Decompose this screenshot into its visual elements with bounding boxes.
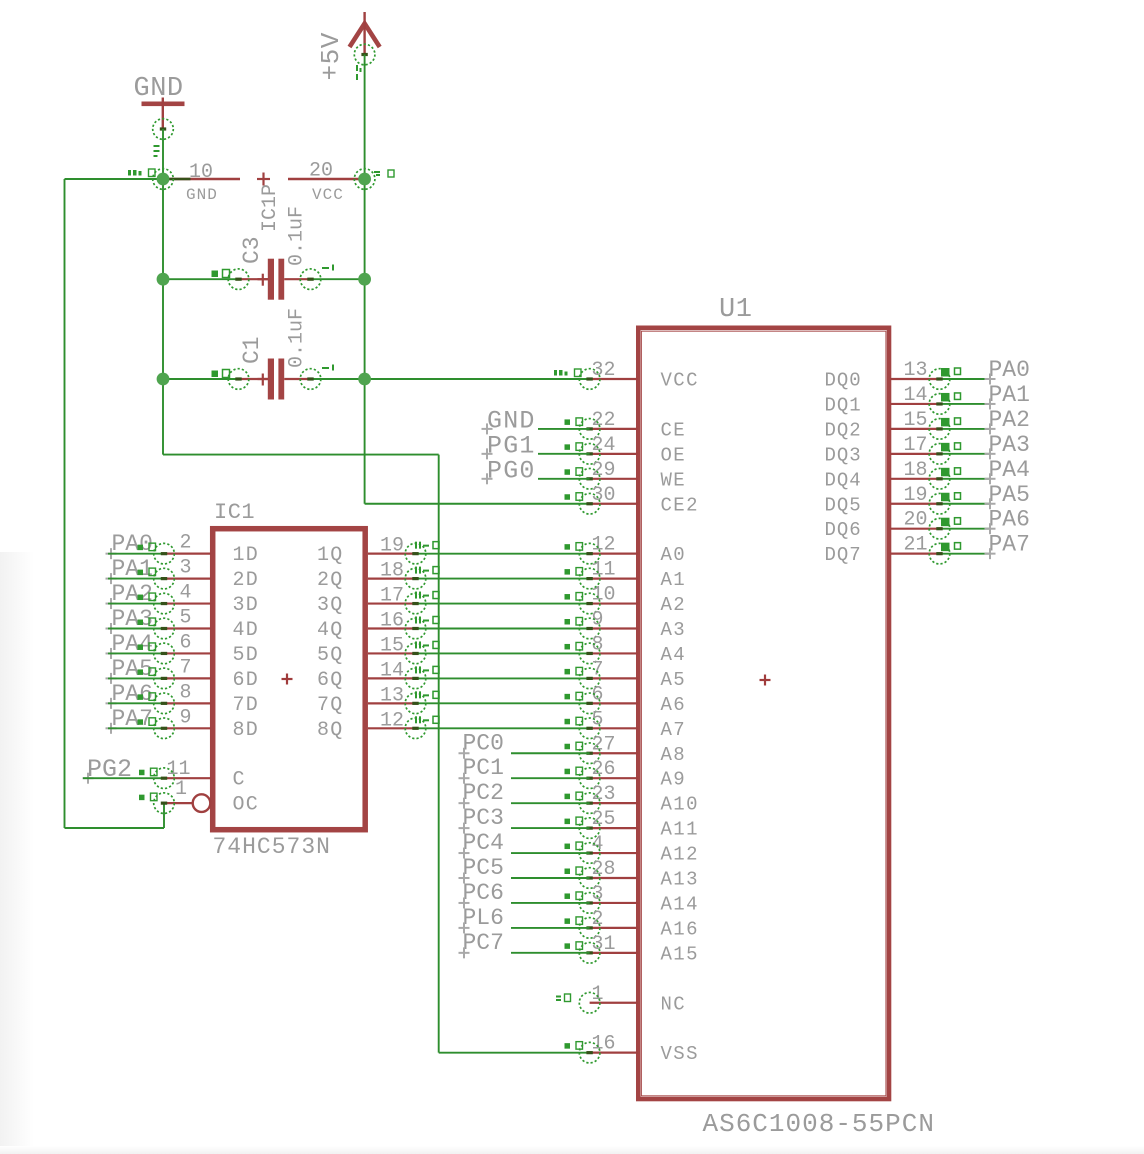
tiny pin marker U1 CE (565, 418, 583, 426)
svg-text:19: 19 (903, 484, 927, 507)
tiny pin marker U1 DQ1 (941, 393, 961, 402)
net PC2 label (463, 780, 504, 806)
svg-text:28: 28 (592, 858, 616, 881)
wire U1 DQ0 to PA0 (940, 378, 991, 380)
svg-text:2D: 2D (233, 569, 259, 592)
tiny pin marker U1 DQ3 (941, 443, 961, 452)
pin 6D line of IC1 (164, 677, 211, 679)
junction +5V-IC1P (358, 173, 371, 186)
node IC1 5D dark (161, 652, 167, 655)
svg-text:9: 9 (592, 609, 604, 632)
net PL6 label (463, 905, 504, 931)
pin A8 line of U1 (590, 752, 638, 754)
wire C3 right (311, 278, 365, 280)
tiny pin marker IC1 3Q (415, 592, 439, 599)
tiny pin marker U1 A2 (565, 593, 583, 601)
svg-text:11: 11 (592, 559, 616, 582)
IC U1 box (638, 328, 889, 1099)
pin DQ6 line of U1 (890, 528, 940, 530)
net PA0 right origin cross (985, 374, 996, 385)
net PA3 label right (989, 432, 1030, 458)
pin number 12 IC1 (380, 709, 404, 732)
pin circle IC1 2D (154, 568, 175, 589)
pin circle IC1 OC (154, 793, 175, 814)
pin circle IC1 5D (154, 643, 175, 664)
net PA5 label right (989, 482, 1030, 508)
pin name 8D IC1 (233, 719, 259, 742)
svg-text:C1: C1 (239, 336, 265, 364)
IC U1 origin cross (760, 675, 771, 686)
tiny pin marker U1 A10 (565, 792, 583, 800)
pin 3Q line of IC1 (368, 602, 416, 604)
pin circle U1 CE (579, 419, 600, 440)
node IC1 OC dark (161, 802, 167, 805)
svg-text:1: 1 (175, 778, 187, 801)
supply +5V arrow (350, 24, 380, 48)
wire U1 DQ3 to PA3 (940, 453, 991, 455)
wire IC1 1Q to U1 A0 (416, 553, 590, 555)
pin circle IC1 4D (154, 618, 175, 639)
svg-text:26: 26 (592, 758, 616, 781)
tiny pin marker IC1 C (139, 768, 157, 776)
tiny pin marker U1 DQ6 (941, 518, 961, 527)
pin name A1 U1 (661, 569, 687, 591)
tiny pin marker U1 A11 (565, 817, 583, 825)
svg-text:21: 21 (903, 534, 927, 557)
pin circle U1 NC (579, 992, 600, 1013)
net PA4 label origin cross (106, 648, 117, 659)
net PA5 label origin cross (106, 673, 117, 684)
node U1 A0 dark (586, 552, 592, 555)
tiny pin marker IC1P pin10 (128, 169, 155, 177)
wire PC1 to U1 (511, 777, 590, 779)
svg-text:18: 18 (903, 459, 927, 482)
pin circle U1 A10 (579, 793, 600, 814)
svg-text:4: 4 (592, 833, 604, 856)
node IC1 4D dark (161, 627, 167, 630)
svg-text:A11: A11 (661, 819, 699, 841)
pin circle IC1 5Q (405, 643, 426, 664)
svg-text:8: 8 (180, 681, 192, 704)
pin number 28 U1 (592, 858, 616, 881)
power part IC1P refdes (259, 184, 282, 232)
pin number 23 U1 (592, 783, 616, 806)
node U1 DQ6 dark (936, 527, 942, 530)
svg-text:29: 29 (592, 459, 616, 482)
pin name DQ3 U1 (825, 444, 862, 466)
pin circle IC1 8D (154, 718, 175, 739)
svg-text:8Q: 8Q (317, 719, 343, 742)
pin A7 line of U1 (590, 727, 638, 729)
pin number 13 IC1 (380, 684, 404, 707)
net PC4 label origin cross (459, 848, 470, 859)
svg-text:9: 9 (180, 706, 192, 729)
pin circle U1 DQ6 (929, 518, 950, 539)
net PA1 label right (989, 382, 1030, 408)
bottom edge shading (0, 1146, 1144, 1154)
pin name 2Q IC1 (317, 569, 343, 592)
capacitor C1 plate 2 (278, 359, 284, 400)
wire GND to U1 (538, 428, 590, 430)
tiny pin marker U1 WE (565, 468, 583, 476)
pin name 5Q IC1 (317, 644, 343, 667)
tiny pin marker U1 A7 (565, 717, 583, 725)
pin number 19 IC1 (380, 535, 404, 558)
svg-text:10: 10 (189, 161, 213, 184)
pin number 17 IC1 (380, 585, 404, 608)
junction C3 right (358, 273, 371, 286)
svg-text:A9: A9 (661, 769, 687, 791)
node U1 A1 dark (586, 577, 592, 580)
pin 6Q line of IC1 (368, 677, 416, 679)
wire PG1 to U1 (538, 453, 590, 455)
node IC1 7D dark (161, 702, 167, 705)
tiny pin marker IC1 7Q (415, 691, 439, 698)
svg-text:7: 7 (592, 658, 604, 681)
wire IC1 5Q to U1 A4 (416, 652, 590, 654)
IC U1 value AS6C1008-55PCN (703, 1109, 935, 1139)
pin A13 line of U1 (590, 877, 638, 879)
supply GND label (134, 74, 184, 104)
wire PC5 to U1 (511, 877, 590, 879)
svg-text:16: 16 (592, 1033, 616, 1056)
pin name A0 U1 (661, 544, 687, 566)
pin 7D line of IC1 (164, 702, 211, 704)
net PA6 right origin cross (985, 523, 996, 534)
net PC6 label origin cross (459, 897, 470, 908)
pin CE line of U1 (590, 428, 638, 430)
pin circle U1 A0 (579, 543, 600, 564)
pin circle U1 VSS (579, 1042, 600, 1063)
pin name DQ5 U1 (825, 494, 862, 516)
node U1 CE2 dark (586, 502, 592, 505)
tiny pin marker U1 DQ2 (941, 418, 961, 427)
pin A16 line of U1 (590, 927, 638, 929)
IC IC1 value 74HC573N (213, 834, 331, 860)
pin number 24 U1 (592, 434, 616, 457)
pin name NC U1 (661, 993, 687, 1015)
wire VCC horizontal to U1 (365, 378, 590, 380)
pin number 13 U1 (903, 359, 927, 382)
pin number 19 U1 (903, 484, 927, 507)
wire PC6 to U1 (511, 902, 590, 904)
svg-text:8: 8 (592, 633, 604, 656)
pin number 5 U1 (592, 708, 604, 731)
pin 20 line IC1P VCC (288, 178, 365, 180)
tiny pin marker IC1 4Q (415, 617, 439, 624)
pin name A14 U1 (661, 893, 699, 915)
svg-text:CE: CE (661, 419, 687, 441)
pin VCC line of U1 (590, 378, 638, 380)
net PG2 label (87, 755, 132, 784)
pin name DQ6 U1 (825, 519, 862, 541)
node IC1 4Q dark (412, 627, 418, 630)
tiny pin marker U1 A1 (565, 568, 583, 576)
node IC1 2Q dark (412, 577, 418, 580)
svg-text:A1: A1 (661, 569, 687, 591)
node U1 DQ4 dark (936, 477, 942, 480)
pin number 14 U1 (903, 384, 927, 407)
wire OC bottom horizontal (65, 827, 165, 829)
pin number 6 IC1 (180, 631, 192, 654)
pin name 6D IC1 (233, 669, 259, 692)
wire GND drop vertical (438, 455, 440, 1053)
net PA2 label left (112, 581, 153, 607)
tiny pin marker IC1 1Q (415, 542, 439, 549)
pin name DQ1 U1 (825, 394, 862, 416)
pin name GND IC1P (186, 186, 218, 204)
pin name DQ4 U1 (825, 469, 862, 491)
svg-text:2Q: 2Q (317, 569, 343, 592)
tiny pin marker IC1 OC (139, 793, 157, 801)
pin name 7D IC1 (233, 694, 259, 717)
capacitor C3 left pin (239, 278, 269, 280)
net PC7 label origin cross (459, 947, 470, 958)
pin circle U1 DQ4 (929, 469, 950, 490)
supply +5V label (316, 32, 346, 80)
capacitor C1 value 0.1uF (286, 308, 309, 368)
svg-text:1D: 1D (233, 544, 259, 567)
wire PA6 to IC1 (108, 702, 164, 704)
svg-text:32: 32 (592, 359, 616, 382)
node U1 CE dark (586, 427, 592, 430)
pin circle +5V supply (354, 44, 375, 65)
pin 10 line IC1P GND (163, 178, 240, 180)
wire U1 DQ2 to PA2 (940, 428, 991, 430)
wire PA5 to IC1 (108, 677, 164, 679)
IC IC1 origin cross (282, 674, 293, 685)
pin number 20 U1 (903, 509, 927, 532)
svg-text:3: 3 (180, 557, 192, 580)
pin circle U1 A9 (579, 768, 600, 789)
pin number 16 IC1 (380, 610, 404, 633)
node C3 pin1 dark (235, 278, 241, 281)
net PA5 right origin cross (985, 498, 996, 509)
node U1 A5 dark (586, 677, 592, 680)
net PC1 label origin cross (459, 773, 470, 784)
tiny pin marker U1 A13 (565, 867, 583, 875)
net PC0 label (463, 730, 504, 756)
pin circle U1 A15 (579, 943, 600, 964)
pin circle U1 A2 (579, 593, 600, 614)
pin name WE U1 (661, 469, 687, 491)
svg-text:PG0: PG0 (487, 456, 536, 485)
node GND top dot (160, 127, 166, 130)
net PA3 right origin cross (985, 448, 996, 459)
svg-text:NC: NC (661, 993, 687, 1015)
tiny pin marker U1 A6 (565, 692, 583, 700)
svg-text:7Q: 7Q (317, 694, 343, 717)
wire U1 DQ4 to PA4 (940, 478, 991, 480)
svg-text:OE: OE (661, 444, 687, 466)
pin circle IC1 3D (154, 593, 175, 614)
tiny pin marker IC1 5Q (415, 641, 439, 648)
pin A9 line of U1 (590, 777, 638, 779)
pin name C IC1 (233, 769, 246, 792)
IC U1 refdes (719, 295, 752, 325)
wire PA7 to IC1 (108, 727, 164, 729)
net PA1 label left (112, 556, 153, 582)
pin name VSS U1 (661, 1043, 699, 1065)
pin number 25 U1 (592, 808, 616, 831)
wire U1 DQ7 to PA7 (940, 553, 991, 555)
svg-text:3Q: 3Q (317, 594, 343, 617)
pin circle IC1 1Q (405, 543, 426, 564)
pin number 9 U1 (592, 609, 604, 632)
capacitor C1 plate 1 (268, 359, 274, 400)
pin name CE2 U1 (661, 494, 699, 516)
pin circle U1 A4 (579, 643, 600, 664)
tiny pin marker U1 A3 (565, 618, 583, 626)
node U1 A15 dark (586, 951, 592, 954)
net PA1 right origin cross (985, 398, 996, 409)
svg-text:DQ4: DQ4 (825, 469, 862, 491)
wire U1 DQ5 to PA5 (940, 503, 991, 505)
svg-text:DQ0: DQ0 (825, 370, 862, 392)
svg-text:C3: C3 (239, 236, 265, 264)
tiny pin marker C1 pin1 (212, 370, 230, 378)
net PC6 label (463, 880, 504, 906)
pin OC line of IC1 (164, 802, 193, 804)
pin DQ1 line of U1 (890, 403, 940, 405)
wire PC7 to U1 (511, 952, 590, 954)
pin circle U1 DQ7 (929, 543, 950, 564)
svg-text:22: 22 (592, 409, 616, 432)
pin number 7 U1 (592, 658, 604, 681)
node U1 A8 dark (586, 752, 592, 755)
svg-text:4D: 4D (233, 619, 259, 642)
net PA4 right origin cross (985, 473, 996, 484)
tiny pin marker U1 A15 (565, 942, 583, 950)
wire CE2 horizontal (365, 503, 590, 505)
net PA4 label right (989, 457, 1030, 483)
tiny pin marker U1 DQ0 (941, 368, 961, 377)
pin circle U1 DQ5 (929, 493, 950, 514)
pin circle U1 WE (579, 469, 600, 490)
svg-text:13: 13 (903, 359, 927, 382)
tiny pin marker U1 A16 (565, 917, 583, 925)
net GND label mid (487, 406, 536, 435)
wire IC1 6Q to U1 A5 (416, 677, 590, 679)
svg-text:AS6C1008-55PCN: AS6C1008-55PCN (703, 1109, 935, 1139)
pin name 4D IC1 (233, 619, 259, 642)
tiny pin marker C3 pin1 (212, 270, 230, 278)
pin number 10 U1 (592, 584, 616, 607)
pin name CE U1 (661, 419, 687, 441)
pin number 15 U1 (903, 409, 927, 432)
pin number 2 U1 (592, 908, 604, 931)
pin circle U1 OE (579, 444, 600, 465)
svg-text:5: 5 (592, 708, 604, 731)
svg-text:VCC: VCC (312, 186, 344, 204)
net PA2 label right (989, 407, 1030, 433)
pin 10 overlap dark (163, 178, 191, 181)
svg-text:A7: A7 (661, 719, 687, 741)
pin DQ4 line of U1 (890, 478, 940, 480)
node U1 A11 dark (586, 827, 592, 830)
pin number 12 U1 (592, 534, 616, 557)
net PA0 label left (112, 531, 153, 557)
pin DQ2 line of U1 (890, 428, 940, 430)
node U1 DQ0 dark (936, 377, 942, 380)
net PA6 label origin cross (106, 698, 117, 709)
net PL6 label origin cross (459, 922, 470, 933)
pin DQ0 line of U1 (890, 378, 940, 380)
svg-text:12: 12 (592, 534, 616, 557)
pin number 20 IC1P (309, 160, 333, 183)
svg-text:DQ5: DQ5 (825, 494, 862, 516)
pin circle U1 A16 (579, 918, 600, 939)
node U1 A3 dark (586, 627, 592, 630)
pin circle U1 A11 (579, 818, 600, 839)
svg-text:6D: 6D (233, 669, 259, 692)
pin DQ5 line of U1 (890, 503, 940, 505)
svg-text:13: 13 (380, 684, 404, 707)
svg-text:WE: WE (661, 469, 687, 491)
pin A1 line of U1 (590, 577, 638, 579)
pin circle U1 VCC (579, 369, 600, 390)
pin name A4 U1 (661, 644, 687, 666)
svg-text:A16: A16 (661, 918, 699, 940)
tiny pin marker U1 A5 (565, 667, 583, 675)
node IC1 2D dark (161, 577, 167, 580)
pin circle U1 DQ1 (929, 394, 950, 415)
tiny pin marker IC1 3D (138, 593, 156, 601)
net PG0 label mid (487, 456, 536, 485)
pin number 9 IC1 (180, 706, 192, 729)
capacitor C1 right pin (284, 378, 310, 380)
pin name DQ2 U1 (825, 419, 862, 441)
pin OE line of U1 (590, 453, 638, 455)
tiny pin marker GND supply (154, 145, 160, 157)
tiny pin marker IC1 8Q (415, 716, 439, 723)
svg-text:4Q: 4Q (317, 619, 343, 642)
pin 7Q line of IC1 (368, 702, 416, 704)
wire C1 left (163, 378, 239, 380)
pin name A9 U1 (661, 769, 687, 791)
svg-text:1: 1 (592, 983, 604, 1006)
wire PL6 to U1 (511, 927, 590, 929)
pin name 1Q IC1 (317, 544, 343, 567)
wire PG0 to U1 (538, 478, 590, 480)
net PA2 right origin cross (985, 423, 996, 434)
tiny pin marker U1 DQ5 (941, 493, 961, 502)
svg-text:0.1uF: 0.1uF (286, 308, 309, 368)
node U1 WE dark (586, 477, 592, 480)
pin A0 line of U1 (590, 553, 638, 555)
svg-text:IC1P: IC1P (259, 184, 282, 232)
wire IC1 8Q to U1 A7 (416, 727, 590, 729)
pin name A10 U1 (661, 794, 699, 816)
svg-text:14: 14 (903, 384, 927, 407)
wire IC1 2Q to U1 A1 (416, 578, 590, 580)
svg-text:CE2: CE2 (661, 494, 699, 516)
svg-text:14: 14 (380, 659, 404, 682)
node C3 pin2 dark (307, 278, 313, 281)
svg-text:PG2: PG2 (87, 755, 132, 784)
node IC1 3D dark (161, 602, 167, 605)
pin circle IC1 8Q (405, 718, 426, 739)
pin circle C3 pin1 (228, 269, 249, 290)
pin circle U1 A13 (579, 868, 600, 889)
svg-text:IC1: IC1 (214, 500, 255, 525)
wire +5V vertical rail (364, 55, 366, 380)
pin circle IC1 2Q (405, 568, 426, 589)
pin NC line of U1 (590, 1002, 638, 1004)
svg-text:7: 7 (180, 656, 192, 679)
node U1 DQ2 dark (936, 427, 942, 430)
capacitor C3 plate 2 (278, 259, 284, 300)
